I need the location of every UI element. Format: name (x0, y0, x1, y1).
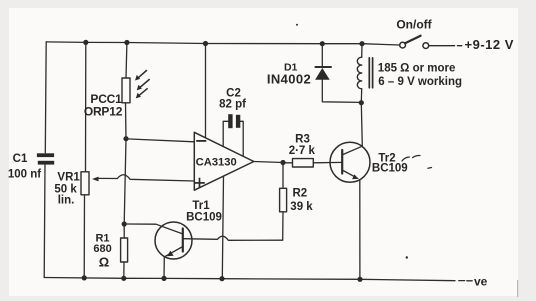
speck bottom right (406, 256, 408, 258)
LDR PCC1 (122, 78, 130, 103)
switch lever (405, 36, 421, 44)
wire Tr1 base line (hump over V- wire) (183, 236, 283, 240)
resistor R2 (280, 188, 287, 212)
transistor Q1 Tr1 circle (155, 222, 192, 259)
svg-text:Ω: Ω (99, 255, 109, 270)
svg-text:185 Ω or more: 185 Ω or more (378, 63, 456, 75)
node bottom rail / Tr1 emitter (161, 276, 166, 281)
wire coil top lead (361, 44, 363, 58)
svg-text:ve: ve (474, 274, 488, 288)
resistor R3 (293, 159, 314, 167)
switch On/off pivot contact (400, 42, 406, 48)
node top rail / VR1 (83, 40, 88, 45)
wire switch to supply label (429, 45, 455, 47)
wire node to Tr1 collector junction (124, 139, 126, 224)
svg-text:BC109: BC109 (372, 163, 408, 175)
wire Tr1 collector to junction (124, 224, 183, 234)
op-amp minus sign (196, 140, 206, 142)
wire left column upper (to C1) (44, 42, 47, 153)
svg-text:C1: C1 (13, 153, 28, 165)
svg-text:100 nf: 100 nf (8, 169, 41, 181)
Tr2 emitter (342, 170, 358, 178)
svg-text:6 – 9 V working: 6 – 9 V working (378, 76, 462, 88)
wire op-amp V- to bottom rail (222, 176, 223, 279)
wire junction to R1 (123, 224, 125, 238)
scan edge mark bottom right (517, 280, 519, 297)
wire top rail (46, 42, 399, 45)
op-amp plus sign (194, 182, 205, 184)
svg-text:Tr1: Tr1 (192, 200, 210, 212)
light arrow 3 (138, 89, 148, 97)
wire coil bottom lead (360, 89, 362, 103)
relay core bars (368, 58, 370, 88)
wire bottom rail (44, 278, 455, 281)
inductor relay coil (357, 57, 361, 89)
wire PCC1 to minus-input node (125, 103, 128, 139)
node bottom rail / VR1 (82, 275, 87, 280)
resistor R1 (121, 238, 128, 262)
capacitor C2 (228, 114, 240, 128)
svg-text:CA3130: CA3130 (196, 156, 237, 168)
svg-text:+9-12 V: +9-12 V (465, 37, 514, 52)
wire Tr2 collector (361, 103, 362, 147)
light arrow 2 (139, 80, 150, 89)
wire op-amp V+ supply from top rail (205, 44, 207, 138)
node op-amp output / R2 / R3 (280, 160, 285, 165)
svg-text:680: 680 (93, 243, 111, 255)
light arrow 1 (137, 71, 146, 79)
capacitor C1 (37, 153, 54, 164)
svg-text:lin.: lin. (58, 194, 75, 206)
svg-text:BC109: BC109 (186, 212, 222, 224)
VR1 wiper arrow (92, 177, 99, 182)
svg-text:R3: R3 (295, 134, 310, 146)
wire left column lower (C1 to bottom rail) (43, 165, 46, 278)
wire PCC1 column upper (125, 43, 128, 79)
wire VR1 column lower (83, 195, 85, 278)
svg-text:2·7 k: 2·7 k (289, 145, 316, 157)
wire node to R2 (282, 163, 284, 189)
stray dash right of Tr2 (402, 157, 409, 161)
op-amp U1 CA3130 (194, 132, 254, 190)
dash of -ve label (459, 280, 465, 282)
svg-text:On/off: On/off (396, 17, 432, 31)
wire op-amp output to node (254, 162, 283, 163)
svg-text:39 k: 39 k (290, 201, 313, 213)
wire Tr2 emitter to bottom rail (359, 180, 361, 279)
wire D1 top lead (321, 44, 323, 67)
svg-text:ORP12: ORP12 (84, 105, 123, 119)
svg-text:VR1: VR1 (57, 172, 80, 184)
node top rail / PCC1 (124, 40, 129, 45)
svg-text:82 pf: 82 pf (219, 98, 246, 110)
stray tick right of BC109 (428, 167, 432, 170)
Tr1 base bar (182, 229, 184, 252)
dash before +9-12V (457, 45, 461, 47)
node Tr1 collector / R1 (122, 221, 127, 226)
switch open contact (423, 43, 429, 49)
wire C2 right lead (240, 121, 243, 156)
wire VR1 column upper (85, 42, 87, 171)
stray dash 2 right of Tr2 (413, 155, 421, 157)
wire R1 to bottom rail (123, 262, 125, 278)
wire minus input line (126, 139, 194, 142)
wire C2 left lead (223, 121, 228, 146)
node bottom rail / Tr2 emitter (357, 277, 362, 282)
node top rail / op-amp supply (203, 41, 208, 46)
wire D1 bottom to coil bottom node (322, 80, 361, 103)
wire Tr1 emitter to bottom rail (163, 257, 165, 279)
wire node to R3 (283, 162, 293, 164)
wire R2 to Tr1 base line (282, 212, 284, 240)
node top rail / D1 (320, 41, 325, 46)
node D1 / coil / Tr2 collector (359, 100, 364, 105)
node bottom rail / R1 (121, 276, 126, 281)
node top rail / coil (359, 41, 364, 46)
Tr1 emitter (165, 247, 183, 257)
svg-text:R2: R2 (292, 188, 307, 200)
speck top middle (296, 24, 298, 26)
diode D1 (315, 66, 331, 68)
potentiometer VR1 (81, 172, 89, 195)
node PCC1 / minus input (123, 136, 128, 141)
svg-text:IN4002: IN4002 (267, 71, 311, 86)
wire R3 to Tr2 base (313, 161, 342, 163)
node bottom rail / op-amp V- (219, 276, 224, 281)
transistor Q2 Tr2 circle (330, 142, 370, 182)
Tr2 base bar (341, 150, 343, 174)
wire VR1 wiper to op-amp + input (hump over PCC1 column) (98, 175, 195, 181)
